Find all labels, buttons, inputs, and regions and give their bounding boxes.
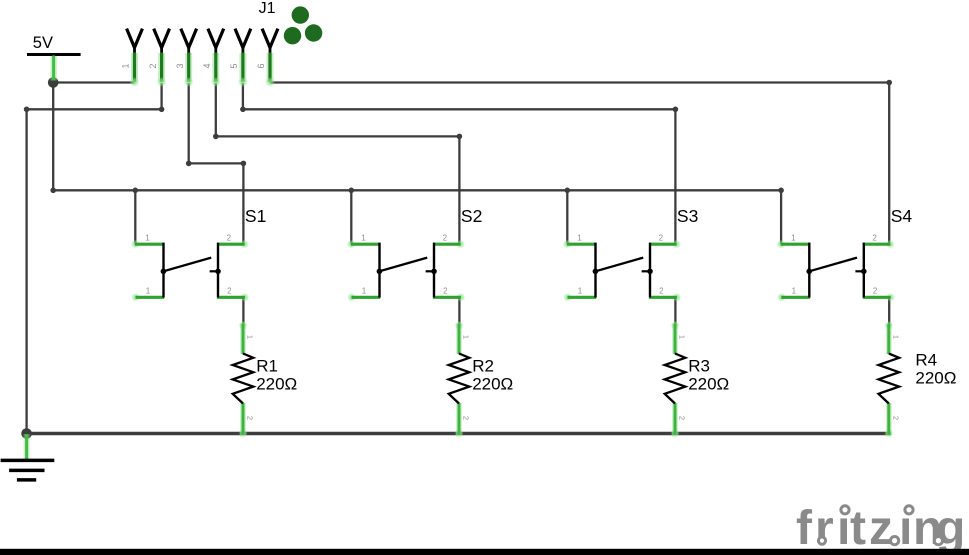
J1 pin 5 [229, 29, 251, 87]
svg-text:5: 5 [229, 63, 239, 68]
svg-text:2: 2 [148, 63, 158, 68]
wire J1 pin 3 stub down [188, 83, 190, 163]
J1 pin 6 [256, 29, 278, 87]
wire J1 pin 5 row to S3 column [243, 108, 676, 110]
svg-text:2: 2 [659, 233, 664, 242]
J1 pin 1 [121, 29, 143, 87]
svg-text:R4: R4 [915, 350, 937, 369]
svg-text:2: 2 [246, 416, 255, 420]
svg-text:1: 1 [791, 233, 796, 242]
svg-text:frıtzıng: frıtzıng [796, 502, 965, 555]
wire J1 pin 3 row to S1 column [189, 162, 244, 164]
svg-text:1: 1 [678, 335, 687, 339]
svg-text:2: 2 [678, 416, 687, 420]
corner dot J1-3 [186, 161, 192, 167]
resistor R2 [449, 321, 471, 438]
label R1 value [256, 357, 297, 394]
J1 schematic icon dots [284, 6, 323, 44]
svg-text:220Ω: 220Ω [472, 375, 513, 394]
ground symbol [1, 434, 55, 480]
junction dot 5V node [48, 77, 59, 88]
wire 5V rail to S2 pin 1 [350, 190, 352, 244]
wire S4 pin 2 to R4 [888, 297, 890, 325]
junction dot ground node [21, 428, 32, 439]
svg-text:S1: S1 [245, 206, 266, 226]
wire 5V rail to S4 pin 1 [780, 190, 782, 244]
wire top-right corner down to S4 pin 2 [888, 83, 890, 245]
wire 5V rail [53, 189, 781, 191]
wire J1 pin 2 stub down [160, 83, 162, 109]
wire 5V node to J1 pin 1 [53, 81, 134, 83]
switch S3 [563, 233, 682, 302]
wire 5V feed vertical [52, 83, 54, 191]
bottom bar [0, 549, 969, 555]
svg-text:1: 1 [146, 287, 151, 296]
svg-text:2: 2 [227, 287, 232, 296]
svg-text:5V: 5V [33, 34, 53, 52]
corner dot ground column top [24, 107, 30, 113]
svg-text:2: 2 [462, 416, 471, 420]
label R3 value [688, 357, 729, 394]
svg-text:J1: J1 [259, 0, 276, 17]
svg-text:2: 2 [443, 233, 448, 242]
wire J1 pin 4 row to S2 column [216, 135, 460, 137]
svg-text:1: 1 [792, 287, 797, 296]
svg-text:1: 1 [362, 287, 367, 296]
svg-text:220Ω: 220Ω [915, 368, 956, 387]
wire S3 column down to S3 pin 2 [674, 109, 676, 244]
svg-text:2: 2 [443, 287, 448, 296]
wire S2 pin 2 to R2 [458, 297, 460, 325]
label R4 value [915, 350, 956, 387]
svg-text:3: 3 [175, 63, 185, 68]
svg-text:2: 2 [872, 233, 877, 242]
wire J1 pin 4 stub down [215, 83, 217, 136]
corner dot top-right [886, 80, 892, 86]
switch S1 [131, 233, 250, 302]
J1 pin 3 [175, 29, 197, 87]
corner dot 5V rail left [50, 188, 56, 194]
svg-text:R1: R1 [256, 357, 278, 376]
wire S1 pin 2 to R1 [242, 297, 244, 325]
svg-text:6: 6 [256, 63, 266, 68]
switch S2 [347, 233, 466, 302]
resistor R3 [665, 321, 687, 438]
corner dot S1 column top [241, 161, 247, 167]
svg-text:1: 1 [577, 233, 582, 242]
svg-text:1: 1 [246, 335, 255, 339]
junction dot rail-S1 [133, 188, 139, 194]
svg-text:220Ω: 220Ω [688, 375, 729, 394]
switch S4 [777, 233, 896, 302]
resistor R1 [233, 321, 255, 438]
svg-text:R2: R2 [472, 357, 494, 376]
fritzing logo [796, 502, 965, 555]
svg-text:S2: S2 [461, 206, 482, 226]
svg-text:4: 4 [202, 63, 212, 68]
label R2 value [472, 357, 513, 394]
wire J1 pin 6 to top-right corner [270, 81, 889, 83]
resistor R4 [879, 321, 901, 438]
svg-text:1: 1 [891, 335, 900, 339]
junction dot J1-2 corner [159, 107, 165, 113]
junction dot rail-S2 [349, 188, 355, 194]
svg-text:R3: R3 [688, 357, 710, 376]
svg-text:1: 1 [121, 63, 131, 68]
wire S1 column down to S1 pin 2 [242, 163, 244, 244]
corner dot J1-5 [240, 107, 246, 113]
wire ground column left vertical [25, 109, 27, 433]
corner dot S2 column top [457, 134, 463, 140]
J1 pin 2 [148, 29, 170, 87]
svg-text:1: 1 [462, 335, 471, 339]
wire S2 column down to S2 pin 2 [458, 136, 460, 244]
svg-text:S4: S4 [891, 206, 913, 226]
wire 5V rail to S3 pin 1 [566, 190, 568, 244]
svg-text:2: 2 [873, 287, 878, 296]
corner dot S3 column top [673, 107, 679, 113]
svg-text:2: 2 [227, 233, 232, 242]
power symbol 5V [27, 34, 81, 80]
svg-text:2: 2 [659, 287, 664, 296]
svg-text:2: 2 [891, 416, 900, 420]
svg-text:1: 1 [361, 233, 366, 242]
corner dot rail-S4 [778, 188, 784, 194]
wire S3 pin 2 to R3 [674, 297, 676, 325]
ground rail wire [27, 432, 891, 436]
svg-text:1: 1 [145, 233, 150, 242]
junction dot rail-S3 [565, 188, 571, 194]
wire 5V rail to S1 pin 1 [134, 190, 136, 244]
svg-text:220Ω: 220Ω [256, 375, 297, 394]
J1 pin 4 [202, 29, 224, 87]
wire J1 pin 5 stub down [242, 83, 244, 109]
wire J1 pin 2 row to ground column [27, 108, 162, 110]
svg-text:1: 1 [578, 287, 583, 296]
corner dot J1-4 [213, 134, 219, 140]
svg-text:S3: S3 [677, 206, 698, 226]
